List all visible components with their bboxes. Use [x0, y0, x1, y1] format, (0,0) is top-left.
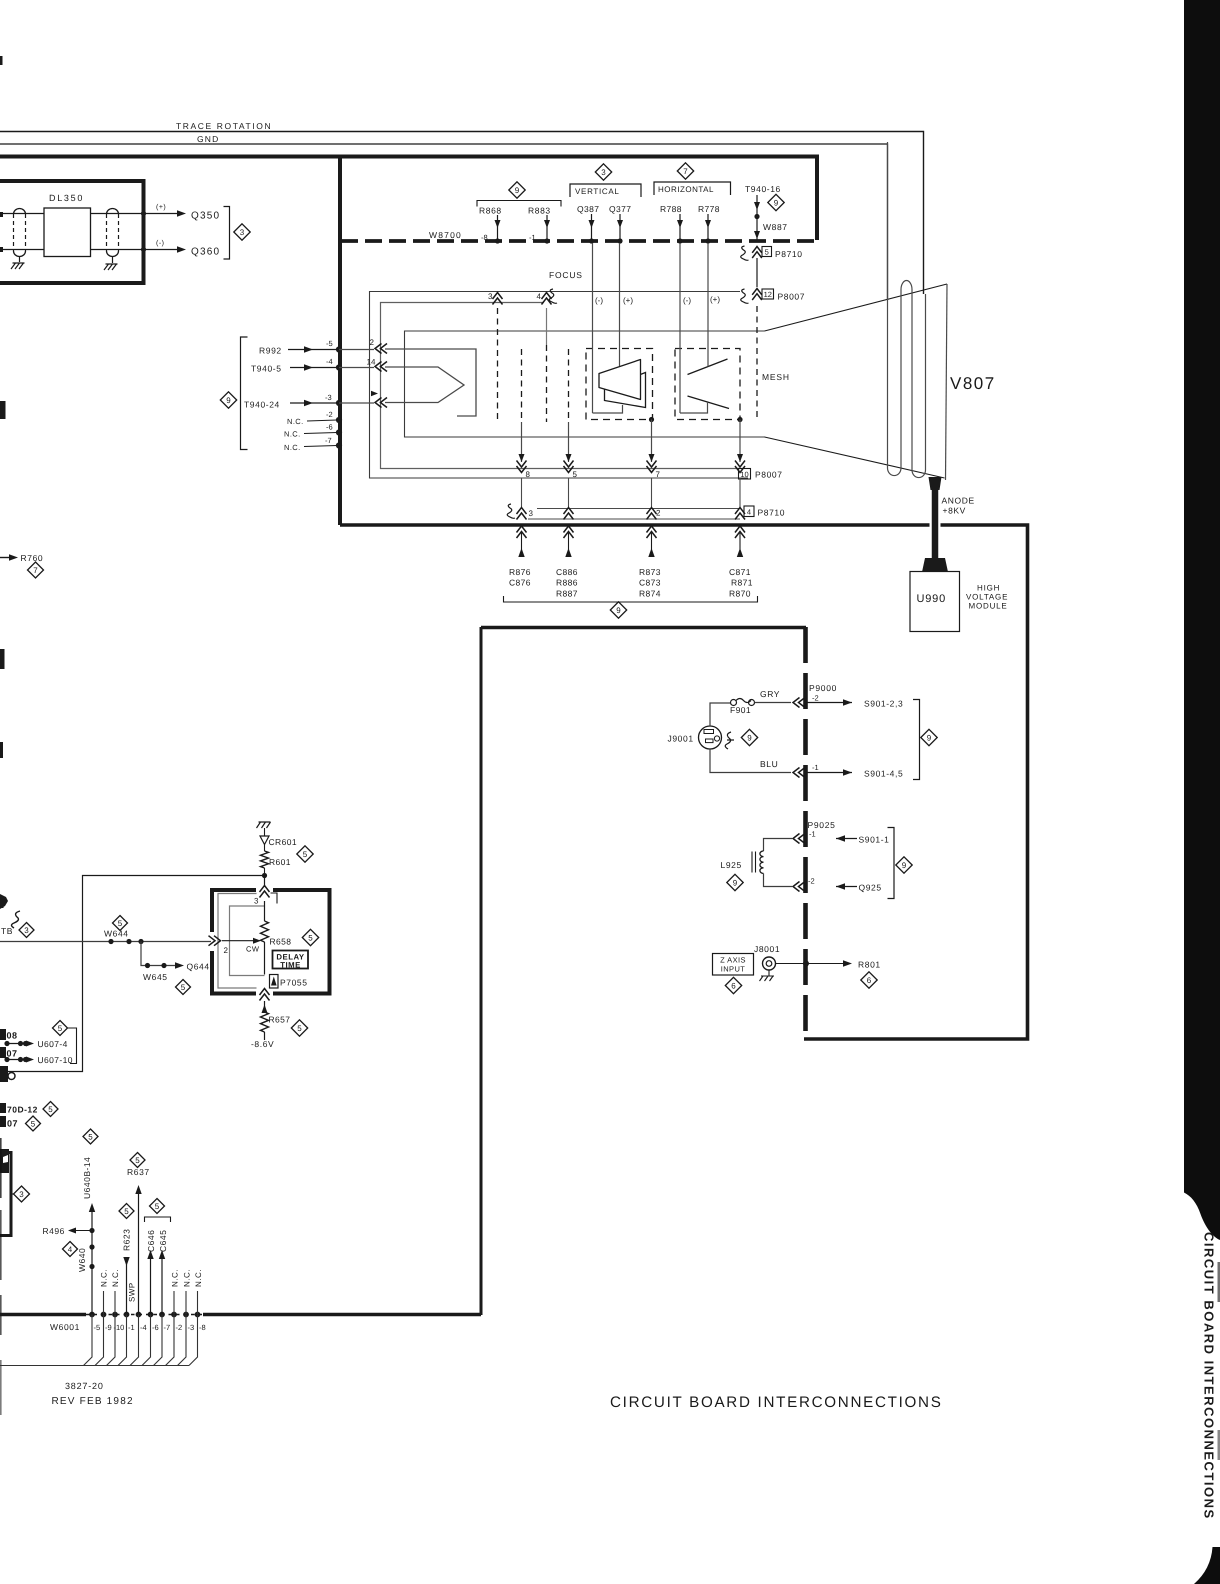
- edge blob y400: [0, 401, 6, 419]
- node W8700-1: [544, 238, 549, 243]
- connector pin T940-24 chevron: [371, 391, 378, 396]
- Z AXIS INPUT box: [713, 954, 754, 976]
- bracket C646/C645: [145, 1217, 171, 1222]
- diode CR601: [260, 836, 269, 845]
- CRT internal shield (outer thin outline): [370, 292, 749, 479]
- node junction Q350 lead: [141, 211, 146, 216]
- svg-text:5: 5: [155, 1202, 160, 1211]
- svg-text:(-): (-): [683, 296, 691, 305]
- svg-text:R788: R788: [660, 204, 682, 214]
- svg-text:HORIZONTAL: HORIZONTAL: [658, 185, 714, 194]
- wire vertical (-) lead: [592, 243, 594, 413]
- svg-text:W645: W645: [143, 972, 168, 982]
- inductor L925: [760, 851, 764, 873]
- svg-text:N.C.: N.C.: [100, 1269, 109, 1287]
- wire R778 to W8700: [707, 214, 709, 240]
- connector P8007 pin 5: [564, 461, 574, 473]
- svg-text:2: 2: [224, 946, 229, 955]
- node horizontal plates to P8007-10: [737, 417, 742, 422]
- wire W8700 interconnect bus (dashed): [341, 239, 816, 243]
- svg-text:CIRCUIT BOARD INTERCONNECTIONS: CIRCUIT BOARD INTERCONNECTIONS: [1202, 1232, 1217, 1520]
- svg-text:R874: R874: [639, 589, 661, 599]
- resistor R601: [264, 845, 266, 852]
- svg-text:U607-4: U607-4: [38, 1039, 68, 1049]
- arrow to C871 group: [737, 548, 743, 557]
- flag 9 below L925: [727, 874, 743, 890]
- svg-text:J9001: J9001: [668, 734, 694, 744]
- svg-text:N.C.: N.C.: [183, 1269, 192, 1287]
- wiper arrow R658: [222, 940, 255, 942]
- svg-text:3: 3: [240, 228, 245, 237]
- svg-text:(-): (-): [595, 296, 603, 305]
- connector J8001 (BNC): [763, 957, 776, 970]
- flag 4 at W640: [63, 1242, 78, 1257]
- horizontal deflection plate lower: [688, 396, 730, 409]
- svg-text:J8001: J8001: [754, 944, 780, 954]
- svg-text:-6: -6: [326, 423, 333, 432]
- flag 9 above R868/R883: [509, 182, 525, 198]
- arrow to R873 group: [648, 548, 654, 557]
- svg-text:C873: C873: [639, 578, 661, 588]
- arrow into R657: [262, 1005, 268, 1014]
- flag 5 at W645: [176, 980, 191, 995]
- resistor R657: [261, 1012, 269, 1032]
- svg-text:7: 7: [33, 566, 38, 575]
- CRT faceplate: [946, 284, 948, 480]
- svg-text:-2: -2: [812, 694, 819, 703]
- wire focus electrode (dashed, pin 4): [546, 308, 548, 345]
- svg-text:R871: R871: [731, 578, 753, 588]
- svg-text:2: 2: [656, 509, 661, 518]
- svg-text:L925: L925: [721, 860, 742, 870]
- connector P8710 mid chevron: [564, 508, 574, 520]
- node W6001-10: [112, 1312, 118, 1318]
- connector housing notch: [271, 893, 278, 904]
- svg-text:GND: GND: [197, 134, 220, 144]
- svg-text:10: 10: [740, 470, 748, 479]
- svg-text:P9025: P9025: [808, 820, 836, 830]
- wire R760 stub: [0, 557, 9, 559]
- edge blob 70D-12: [0, 1103, 6, 1113]
- svg-text:5: 5: [31, 1119, 36, 1128]
- svg-text:-5: -5: [326, 339, 333, 348]
- svg-text:70D-12: 70D-12: [7, 1105, 38, 1115]
- svg-text:C646: C646: [146, 1230, 156, 1252]
- svg-text:VOLTAGE: VOLTAGE: [966, 593, 1008, 602]
- flag 9 left bracket: [220, 392, 236, 408]
- wire W6001 bus solid right: [203, 1313, 481, 1317]
- svg-text:-5: -5: [94, 1323, 101, 1332]
- svg-text:-9: -9: [105, 1323, 112, 1332]
- wire W6001-8 N.C.: [197, 1291, 199, 1314]
- svg-text:5: 5: [88, 1132, 93, 1141]
- wire N.C.-7: [304, 446, 337, 447]
- svg-text:-6: -6: [152, 1323, 159, 1332]
- wire J9001 to F901: [710, 703, 730, 726]
- svg-text:F901: F901: [730, 705, 751, 715]
- edge connector outline: [0, 1153, 11, 1236]
- wire horizontal (+) lead: [707, 243, 709, 367]
- ground (left feedthrough): [19, 257, 21, 263]
- wire T940-5 to W8700-4: [290, 367, 337, 369]
- wire W6001-6 (C646): [150, 1255, 152, 1314]
- svg-text:-3: -3: [325, 393, 332, 402]
- node J8001 on wall: [803, 961, 809, 967]
- svg-text:C871: C871: [729, 567, 751, 577]
- wire P9025-1 to L925: [764, 839, 793, 852]
- connector P9000 pin -1: [793, 768, 805, 778]
- node W644 b: [126, 939, 131, 944]
- svg-text:-7: -7: [325, 436, 332, 445]
- svg-text:P8007: P8007: [778, 292, 806, 302]
- wire MESH electrode (dashed): [756, 306, 758, 421]
- shield loop outer (gray): [218, 894, 257, 989]
- svg-text:T940-24: T940-24: [244, 400, 280, 410]
- node W8700-5: [336, 346, 342, 352]
- svg-text:P8007: P8007: [755, 470, 783, 480]
- connector P9025 pin -1: [793, 834, 805, 844]
- svg-text:T940-5: T940-5: [251, 364, 282, 374]
- node W644 a: [108, 939, 113, 944]
- svg-text:U990: U990: [917, 593, 947, 605]
- svg-text:4: 4: [68, 1245, 73, 1254]
- svg-text:Q925: Q925: [859, 883, 882, 893]
- svg-text:5: 5: [118, 919, 123, 928]
- svg-text:INPUT: INPUT: [721, 965, 746, 974]
- wire through bottom wall: [260, 989, 270, 1001]
- connector P8007 pin 12: [741, 289, 749, 303]
- wire W6001-3 N.C.: [185, 1291, 187, 1314]
- svg-text:HIGH: HIGH: [977, 584, 1000, 593]
- svg-text:3: 3: [254, 897, 259, 906]
- svg-text:5: 5: [303, 850, 308, 859]
- svg-text:R886: R886: [556, 578, 578, 588]
- wire W6001 bus solid left: [0, 1313, 86, 1317]
- svg-text:P8710: P8710: [758, 508, 786, 518]
- connector P9000 pin -2: [793, 698, 805, 708]
- pot return loop (gray): [230, 906, 265, 976]
- wire pin7 link: [651, 478, 653, 507]
- node W645 a: [145, 963, 150, 968]
- svg-text:5: 5: [573, 470, 578, 479]
- wire S901-1 into P9025: [836, 838, 857, 840]
- svg-text:TB: TB: [1, 926, 13, 936]
- svg-text:W6001: W6001: [50, 1322, 80, 1332]
- flag 5 at 70D-12: [43, 1102, 58, 1117]
- flag 9 below bracket: [610, 602, 626, 618]
- node W6001-2: [171, 1312, 177, 1318]
- svg-text:R870: R870: [729, 589, 751, 599]
- connector P8710 pin 5: [741, 246, 749, 260]
- svg-text:C876: C876: [509, 578, 531, 588]
- connector P8007 pin 10: [735, 461, 745, 473]
- svg-text:-1: -1: [128, 1323, 135, 1332]
- svg-text:R992: R992: [259, 346, 282, 356]
- wire Q925 into P9025: [836, 886, 857, 888]
- svg-text:Q387: Q387: [577, 204, 599, 214]
- svg-text:(+): (+): [156, 203, 166, 211]
- node W640 b: [89, 1264, 94, 1269]
- wire Q387 to W8700: [591, 214, 593, 240]
- svg-text:P8710: P8710: [775, 249, 803, 259]
- flag 5 right of R657: [291, 1020, 307, 1036]
- wire T940-24 from wall: [339, 402, 374, 404]
- edge marks top: [0, 56, 3, 65]
- svg-text:C645: C645: [158, 1230, 168, 1252]
- label boxed 10: [739, 469, 751, 480]
- svg-text:9: 9: [902, 861, 907, 870]
- connector P8710 pin 2: [647, 508, 657, 520]
- wire TRACE ROTATION net (to CRT shield band): [0, 132, 924, 295]
- connector P8710 pin 3: [507, 504, 515, 518]
- wire vertical (+) lead: [619, 243, 621, 366]
- node W6001-7: [159, 1312, 165, 1318]
- connector pin 2 (delay box): [209, 936, 221, 946]
- svg-text:ANODE: ANODE: [942, 496, 975, 506]
- wire R601 junction into delay box: [264, 876, 266, 888]
- flag 3 at STB: [19, 923, 34, 938]
- wire pin2 through-wall chevron: [647, 526, 657, 538]
- deflection plates HORIZONTAL (dashed box): [675, 349, 740, 420]
- svg-text:P9000: P9000: [809, 683, 837, 693]
- HV compartment left wall (dashed): [803, 627, 808, 1039]
- svg-text:FOCUS: FOCUS: [549, 270, 583, 280]
- svg-text:3: 3: [488, 292, 493, 301]
- vertical deflection plate front: [599, 360, 641, 400]
- svg-text:CR601: CR601: [269, 837, 297, 847]
- svg-text:3: 3: [601, 168, 606, 177]
- node W8700 R778: [705, 238, 710, 243]
- svg-text:S901-1: S901-1: [859, 835, 890, 845]
- deflection plates VERTICAL (dashed box): [586, 349, 653, 420]
- arrow to Q644: [175, 962, 184, 968]
- svg-text:5: 5: [297, 1024, 302, 1033]
- bracket Q350/Q360: [224, 207, 230, 260]
- CRT anode button: [929, 477, 942, 490]
- sweep board left wall: [480, 627, 483, 1315]
- svg-text:(+): (+): [623, 296, 633, 305]
- bracket VERTICAL: [570, 184, 641, 197]
- wire L925 to P9025-2: [764, 874, 793, 887]
- svg-text:7: 7: [656, 470, 661, 479]
- wire J8001 to R801: [776, 963, 844, 965]
- svg-text:DL350: DL350: [49, 193, 84, 203]
- wire N.C.-2: [307, 420, 337, 421]
- wire to S901-4,5: [806, 772, 852, 774]
- svg-text:9: 9: [927, 733, 932, 742]
- node W6001-6: [148, 1312, 154, 1318]
- svg-text:R873: R873: [639, 567, 661, 577]
- svg-text:W640: W640: [77, 1248, 87, 1272]
- wire Q377 to W8700: [619, 214, 621, 240]
- lamp socket J9001: [699, 726, 722, 749]
- ground (right feedthrough): [112, 257, 114, 264]
- node W6001-8: [195, 1312, 201, 1318]
- svg-text:N.C.: N.C.: [284, 430, 301, 439]
- svg-text:W8700: W8700: [429, 230, 462, 240]
- svg-text:-1: -1: [812, 763, 819, 772]
- potentiometer R658: [261, 921, 269, 942]
- lamp symbol at J9001: [725, 732, 734, 749]
- svg-text:3: 3: [529, 509, 534, 518]
- node W644 c: [138, 939, 143, 944]
- svg-text:9: 9: [747, 733, 752, 742]
- bracket HORIZONTAL: [654, 182, 731, 195]
- svg-text:R623: R623: [122, 1229, 132, 1251]
- bracket U607: [68, 1028, 77, 1064]
- wire horizontal (-) lead: [679, 243, 681, 413]
- node W8700 R788: [677, 238, 682, 243]
- edge blob below U607: [0, 1066, 8, 1082]
- wire to Q360: [144, 249, 178, 251]
- svg-text:5: 5: [135, 1156, 140, 1165]
- delay pickoff box (thick): [212, 890, 256, 932]
- connector P9025 pin -2: [793, 882, 805, 892]
- wire edge stub blob: [0, 1068, 7, 1075]
- svg-text:R760: R760: [21, 553, 44, 563]
- svg-text:(+): (+): [710, 295, 720, 304]
- node W8700-8: [495, 238, 500, 243]
- wire W6001-9 N.C.: [103, 1291, 105, 1314]
- flag 6 below R801: [861, 972, 877, 988]
- svg-text:W887: W887: [763, 222, 788, 232]
- wire DL350 lower (-) lead: [0, 249, 44, 251]
- CRT heater filament (pins 14/cath): [385, 367, 464, 403]
- svg-text:T940-16: T940-16: [745, 184, 781, 194]
- svg-text:Q360: Q360: [191, 247, 220, 258]
- svg-text:S901-2,3: S901-2,3: [864, 699, 903, 709]
- flag 5 at R623: [119, 1204, 134, 1219]
- flag 5 right of CR601: [297, 846, 313, 862]
- svg-text:07: 07: [7, 1049, 18, 1059]
- wire pin8 link: [521, 478, 523, 507]
- wire P8710 row lower: [528, 518, 740, 520]
- connector P8710 pin 4: [735, 508, 745, 520]
- svg-text:U607-10: U607-10: [38, 1055, 73, 1065]
- label boxed 12: [762, 289, 774, 299]
- bracket S901-1/Q925: [888, 828, 895, 899]
- edge squiggle STB: [12, 911, 21, 928]
- wire pin8 through-wall chevron: [517, 526, 527, 538]
- CRT funnel bottom: [765, 437, 945, 478]
- cable W6001 run: [0, 1365, 189, 1367]
- wire pin5 link: [568, 478, 570, 507]
- wire T940-24 to W8700-3: [290, 402, 337, 404]
- connector pin 3 chevron (grid): [493, 293, 503, 305]
- wire P8710-5 to P8007-12: [756, 258, 758, 287]
- svg-text:5: 5: [124, 1207, 129, 1216]
- CRT compartment bottom / HV compartment wall: [340, 525, 1028, 1039]
- wire pin2 from wall: [339, 349, 374, 351]
- svg-text:-2: -2: [326, 410, 333, 419]
- svg-text:5: 5: [181, 983, 186, 992]
- wire W6001-10 N.C.: [114, 1291, 116, 1314]
- svg-text:TRACE ROTATION: TRACE ROTATION: [176, 121, 272, 131]
- wire W6001-1 (R623): [126, 1262, 128, 1314]
- connector P7055: [270, 975, 279, 989]
- cable W6001 fanout: [84, 1315, 93, 1366]
- svg-text:5: 5: [48, 1105, 53, 1114]
- ground at J8001: [768, 970, 770, 976]
- wire pin10 link: [739, 478, 741, 507]
- wire pin3 to R658: [264, 901, 266, 921]
- svg-text:5: 5: [308, 933, 313, 942]
- connector P8007 pin 7: [647, 461, 657, 473]
- wire loop to left edge: [6, 876, 265, 1072]
- wire J9001 to BLU: [710, 749, 791, 773]
- svg-text:R637: R637: [127, 1167, 150, 1177]
- node R601 junction: [262, 873, 267, 878]
- svg-text:3: 3: [19, 1190, 24, 1199]
- wire W6001-7 (C645): [161, 1255, 163, 1314]
- wire to S901-2,3: [806, 702, 852, 704]
- connector pin 4 chevron (focus): [542, 293, 552, 305]
- svg-text:+8KV: +8KV: [943, 506, 966, 516]
- bracket S901 pair: [913, 700, 920, 780]
- wire electrode pin5 to connector: [568, 422, 570, 462]
- wire W645 drop: [141, 942, 176, 966]
- svg-text:P7055: P7055: [280, 978, 308, 988]
- CRT compartment left wall: [338, 156, 342, 525]
- connector P8007 pin 8: [517, 461, 527, 473]
- svg-text:4: 4: [537, 292, 542, 301]
- svg-text:5: 5: [765, 247, 769, 256]
- page edge black bar: [1184, 0, 1220, 1240]
- wire electrode pin 8 (dashed): [521, 349, 523, 422]
- wire pin4 through-wall chevron: [735, 526, 745, 538]
- wire pin14 from wall: [339, 367, 374, 369]
- edge blob y650: [0, 649, 5, 669]
- connector pin 3 (delay box): [260, 886, 270, 898]
- svg-text:R658: R658: [270, 937, 292, 947]
- edge blob 608: [0, 1029, 6, 1040]
- flag 5 at U640B-14: [83, 1129, 98, 1144]
- svg-text:CIRCUIT BOARD INTERCONNECTIONS: CIRCUIT BOARD INTERCONNECTIONS: [610, 1394, 943, 1411]
- svg-text:9: 9: [226, 396, 231, 405]
- svg-text:TIME: TIME: [280, 961, 301, 970]
- wire electrode pin8 to connector: [521, 422, 523, 462]
- svg-text:S901-4,5: S901-4,5: [864, 769, 903, 779]
- node W8700 Q377: [617, 238, 622, 243]
- node W8700-2: [336, 417, 342, 423]
- page corner black wedge: [1194, 1547, 1220, 1584]
- wire W6001 bus dashed middle: [86, 1314, 203, 1316]
- svg-text:Q350: Q350: [191, 211, 220, 222]
- svg-text:R868: R868: [479, 206, 502, 216]
- wire anode lead (white casing): [930, 486, 941, 558]
- svg-text:N.C.: N.C.: [287, 417, 304, 426]
- edge slivers right: [1218, 1262, 1220, 1302]
- flag 3 at edge connector: [11, 1193, 14, 1195]
- svg-text:8: 8: [526, 470, 531, 479]
- node W640 R496: [89, 1228, 94, 1233]
- node W8700-4: [336, 364, 342, 370]
- wire grid electrode (dashed, pin 3): [497, 308, 499, 422]
- delay line DL350 body: [44, 208, 91, 257]
- HV compartment top wall: [481, 626, 806, 630]
- CRT focus electrode loop: [381, 303, 741, 469]
- svg-text:2: 2: [370, 338, 375, 347]
- node W6001-4: [136, 1312, 142, 1318]
- wire W6001-4 (SWP to R637): [138, 1190, 140, 1314]
- wire pin5 through-wall chevron: [564, 526, 574, 538]
- capacitor (feedthrough, left): [14, 209, 26, 215]
- node W6001-5: [89, 1312, 95, 1318]
- wire W6001-5 (W640): [91, 1208, 93, 1314]
- svg-text:R601: R601: [269, 857, 291, 867]
- bracket R868/R883: [477, 201, 561, 207]
- node W640 a: [89, 1244, 94, 1249]
